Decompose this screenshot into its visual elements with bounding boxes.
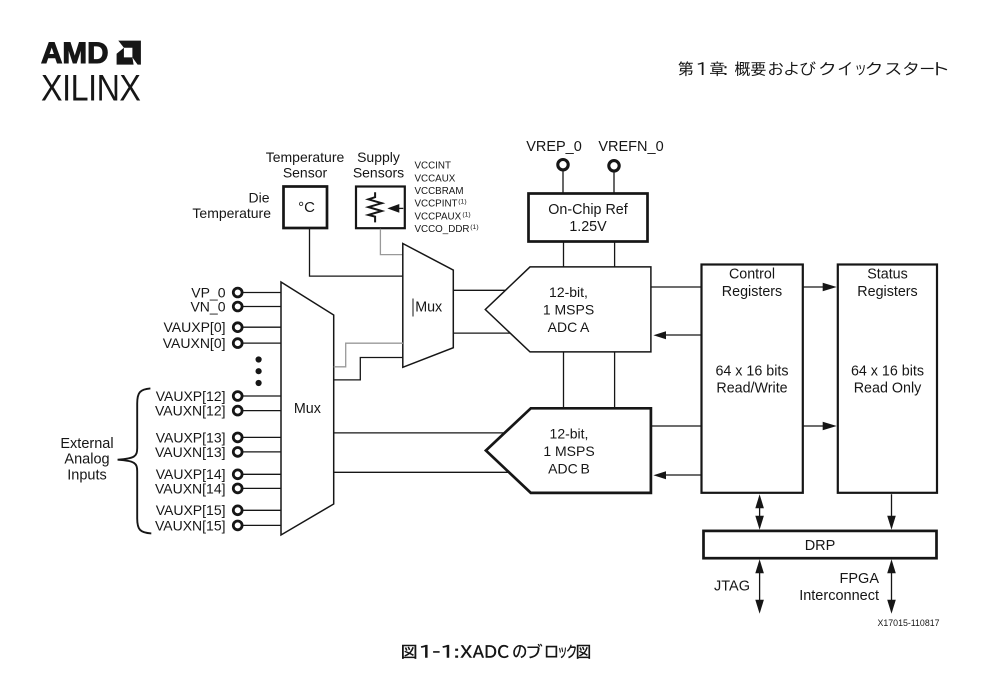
wire aux mux to ADC A upper	[453, 289, 506, 291]
mux (channel select)	[281, 282, 334, 535]
wire aux mux to ADC A lower	[453, 332, 510, 334]
svg-text:VAUXN[13]: VAUXN[13]	[155, 444, 226, 460]
svg-text:Status: Status	[867, 267, 908, 283]
wire VAUXP[14] to mux	[242, 473, 281, 475]
text cursor artifact	[412, 299, 414, 317]
figure caption (Japanese)	[402, 644, 590, 659]
wire VN_0 to mux	[242, 306, 281, 308]
double arrow DRP to JTAG	[759, 563, 761, 610]
status registers block	[838, 265, 937, 493]
svg-text:(1): (1)	[458, 198, 466, 205]
svg-text:AMD: AMD	[41, 37, 109, 70]
svg-text:°C: °C	[298, 199, 315, 216]
svg-text:64 x 16 bits: 64 x 16 bits	[715, 364, 788, 380]
svg-text:Die: Die	[248, 190, 269, 206]
wire mux to aux mux (gray)	[334, 343, 403, 367]
temperature sensor block	[284, 187, 328, 229]
arrow control to status lower	[803, 425, 823, 427]
mux (sensor select)	[403, 244, 454, 368]
svg-text:64 x 16 bits: 64 x 16 bits	[851, 364, 924, 380]
svg-text:Read/Write: Read/Write	[716, 381, 787, 397]
on-chip reference block	[529, 194, 648, 242]
svg-text:VAUXN[15]: VAUXN[15]	[155, 517, 226, 533]
double arrow DRP to FPGA interconnect	[891, 563, 893, 610]
wire VAUXN[14] to mux	[242, 487, 281, 489]
svg-text:Inputs: Inputs	[67, 467, 107, 483]
svg-text:VAUXP[12]: VAUXP[12]	[156, 388, 226, 404]
wire ADC A to ADC B right	[614, 352, 616, 408]
wire VAUXN[15] to mux	[242, 524, 281, 526]
svg-text:VREFN_0: VREFN_0	[598, 139, 663, 155]
arrow control to status upper	[803, 286, 823, 288]
svg-text:DRP: DRP	[805, 538, 836, 554]
wire ADC A to ADC B left	[563, 352, 565, 408]
svg-text:JTAG: JTAG	[714, 579, 750, 595]
svg-text:Registers: Registers	[857, 284, 917, 300]
svg-text:VAUXP[15]: VAUXP[15]	[156, 502, 226, 518]
wire VP_0 to mux	[242, 292, 281, 294]
svg-text:(1): (1)	[462, 211, 470, 218]
DRP block	[704, 531, 937, 558]
svg-text:Registers: Registers	[722, 284, 782, 300]
wire VAUXP[15] to mux	[242, 509, 281, 511]
svg-text:12-bit,: 12-bit,	[550, 426, 589, 442]
wire VREFN_0 to ref	[613, 172, 615, 193]
wire VAUXP[0] to mux	[242, 326, 281, 328]
header chapter title (Japanese)	[679, 61, 948, 76]
wire VREP_0 to ref	[562, 171, 564, 193]
svg-text:FPGA: FPGA	[840, 571, 880, 587]
brace for external inputs	[118, 388, 152, 533]
svg-text:XILINX: XILINX	[41, 68, 141, 109]
svg-text:12-bit,: 12-bit,	[549, 284, 588, 300]
svg-text:ADC B: ADC B	[548, 461, 590, 477]
ADC A block	[485, 267, 651, 352]
wire mux to ADC B upper	[334, 432, 506, 434]
svg-text:Mux: Mux	[294, 401, 321, 417]
svg-text:On-Chip Ref: On-Chip Ref	[548, 202, 627, 218]
svg-text:Read Only: Read Only	[854, 381, 922, 397]
wire mux to ADC B lower	[334, 471, 510, 473]
svg-text:Interconnect: Interconnect	[799, 588, 879, 604]
supply sensors block	[356, 187, 405, 229]
svg-text:VAUXP[0]: VAUXP[0]	[164, 319, 226, 335]
svg-text:1 MSPS: 1 MSPS	[543, 443, 594, 459]
svg-text:VAUXN[0]: VAUXN[0]	[163, 335, 226, 351]
arrow into resistor (sense arrow)	[396, 207, 403, 209]
svg-text:X17015-110817: X17015-110817	[878, 618, 940, 628]
svg-text:Sensor: Sensor	[283, 165, 328, 181]
svg-text:VCCPINT: VCCPINT	[415, 199, 458, 210]
arrow control registers to ADC A	[666, 334, 702, 336]
arrow status registers to DRP	[891, 494, 893, 525]
wire VAUXN[12] to mux	[242, 410, 281, 412]
wire temperature sensor to aux mux	[310, 229, 404, 276]
svg-text:VCCBRAM: VCCBRAM	[415, 186, 464, 197]
wire mux to aux mux (black)	[334, 358, 403, 380]
svg-text:(1): (1)	[470, 224, 478, 231]
ellipsis dots	[256, 356, 262, 362]
resistor symbol	[368, 192, 381, 222]
wire ref to ADC A left	[563, 242, 565, 268]
svg-text:Analog: Analog	[64, 452, 109, 468]
wire VAUXN[13] to mux	[242, 451, 281, 453]
svg-text:1 MSPS: 1 MSPS	[543, 302, 594, 318]
control registers block	[702, 265, 803, 493]
wire VAUXP[13] to mux	[242, 436, 281, 438]
wire ref to ADC A right	[614, 242, 616, 268]
svg-text:VCCINT: VCCINT	[415, 160, 451, 171]
svg-text:VN_0: VN_0	[190, 298, 225, 314]
wire VAUXP[12] to mux	[242, 395, 281, 397]
svg-text:1.25V: 1.25V	[569, 219, 607, 235]
svg-text:Temperature: Temperature	[266, 149, 345, 165]
svg-text:VCCAUX: VCCAUX	[415, 173, 456, 184]
double arrow control registers to DRP	[759, 499, 761, 525]
wire VAUXN[0] to mux	[242, 342, 281, 344]
svg-text:Sensors: Sensors	[353, 165, 404, 181]
svg-text:VAUXN[14]: VAUXN[14]	[155, 480, 226, 496]
svg-text:VCCPAUX: VCCPAUX	[415, 212, 462, 223]
svg-text:ADC A: ADC A	[548, 319, 590, 335]
svg-text:VREP_0: VREP_0	[526, 139, 582, 155]
wire supply sensors to aux mux (gray)	[380, 229, 403, 255]
AMD arrow symbol	[118, 41, 141, 65]
svg-text:VAUXN[12]: VAUXN[12]	[155, 403, 226, 419]
svg-text:Supply: Supply	[357, 149, 400, 165]
svg-text:Control: Control	[729, 267, 775, 283]
wire ADC A to control registers	[651, 286, 702, 288]
svg-text:Temperature: Temperature	[192, 205, 271, 221]
ADC B block	[486, 408, 651, 493]
svg-text:Mux: Mux	[415, 300, 442, 316]
svg-text:VCCO_DDR: VCCO_DDR	[415, 224, 470, 235]
svg-text:External: External	[60, 436, 113, 452]
arrow control registers to ADC B	[666, 474, 702, 476]
wire ADC B to control registers	[651, 425, 702, 427]
